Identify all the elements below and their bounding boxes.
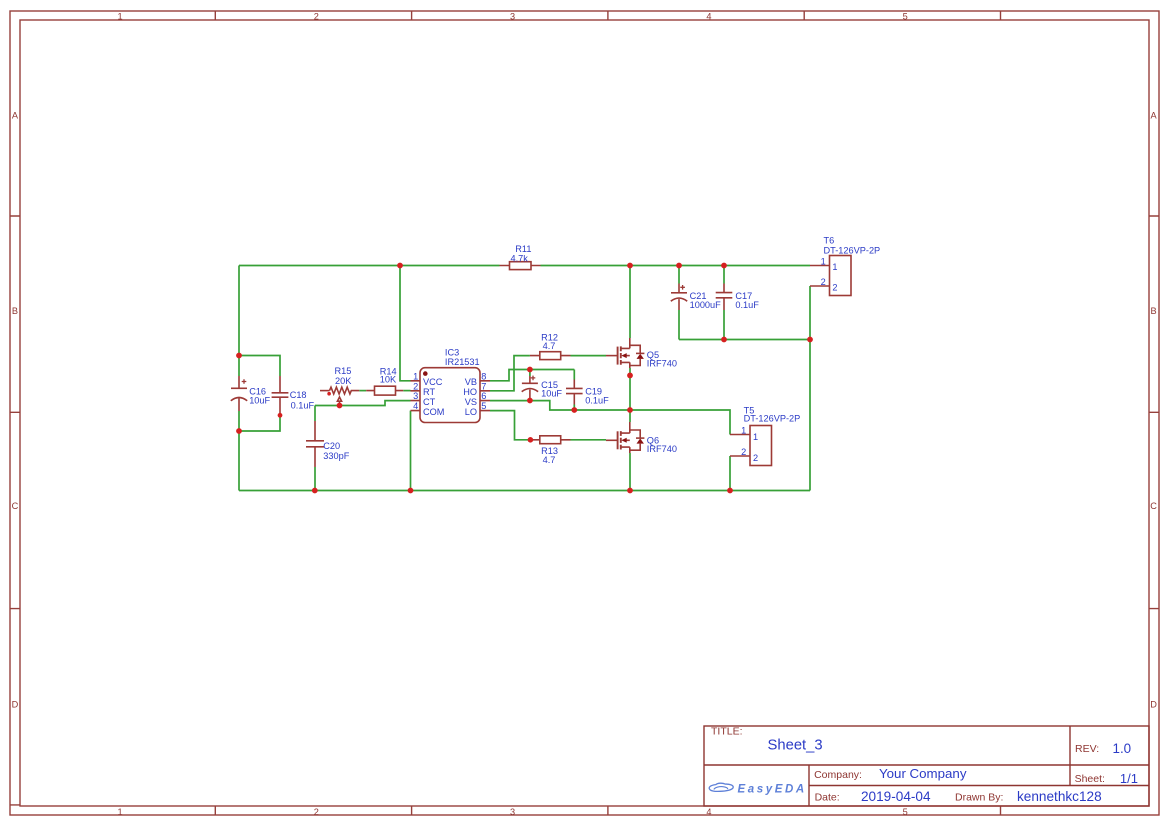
node C15 top on VB wire <box>527 367 533 373</box>
svg-text:IR21531: IR21531 <box>445 357 480 367</box>
svg-text:1.0: 1.0 <box>1113 741 1132 756</box>
svg-text:10uF: 10uF <box>249 395 270 405</box>
node C18 bottom pin end <box>278 413 283 418</box>
svg-text:Sheet_3: Sheet_3 <box>768 737 823 753</box>
label T5 DT-126VP-2P <box>744 406 801 424</box>
svg-text:0.1uF: 0.1uF <box>585 395 609 405</box>
wire C17 bottom <box>723 310 725 340</box>
wire left rail below C16 <box>238 411 240 491</box>
svg-text:Date:: Date: <box>815 791 840 803</box>
svg-text:B: B <box>12 306 18 316</box>
wire R12 to Q5 gate <box>571 355 607 357</box>
resistor R13 <box>530 436 570 444</box>
svg-text:7: 7 <box>481 381 486 391</box>
label C18 0.1uF <box>290 390 315 410</box>
label Q5 IRF740 <box>647 350 677 368</box>
svg-text:1: 1 <box>741 425 746 435</box>
svg-text:2: 2 <box>741 447 746 457</box>
svg-text:2: 2 <box>821 277 826 287</box>
wire RT node R15 wiper to CT pin <box>315 401 411 406</box>
node T5 pin2 bottom rail <box>727 488 733 494</box>
label IC3 IR21531 <box>445 348 480 367</box>
label T6 pin numbers <box>821 256 838 292</box>
title block grid lines <box>704 726 1149 806</box>
wire C20 top <box>314 406 316 422</box>
TITLEBLOCK <box>704 726 1149 806</box>
label IC3 pin numbers <box>413 371 486 411</box>
svg-text:D: D <box>12 699 19 709</box>
svg-text:1/1: 1/1 <box>1120 771 1138 786</box>
svg-text:COM: COM <box>423 407 444 417</box>
svg-text:5: 5 <box>903 807 908 817</box>
node Q5 drain on top rail <box>627 263 633 269</box>
wire mid rail C21/C17 bottoms <box>679 339 810 341</box>
wire Q5 drain to top rail <box>629 266 631 339</box>
label T5 pin numbers <box>741 425 758 463</box>
svg-text:REV:: REV: <box>1075 743 1099 755</box>
svg-text:1: 1 <box>753 432 758 442</box>
capacitor C19 <box>566 380 583 405</box>
svg-text:VS: VS <box>465 397 477 407</box>
svg-text:Drawn By:: Drawn By: <box>955 791 1003 803</box>
resistor R12 <box>530 352 571 360</box>
svg-text:10K: 10K <box>380 375 397 385</box>
svg-text:330pF: 330pF <box>323 451 349 461</box>
svg-text:TITLE:: TITLE: <box>711 726 743 738</box>
capacitor C21 polarized <box>671 284 687 311</box>
svg-text:Sheet:: Sheet: <box>1075 773 1105 785</box>
label R13 4.7 <box>541 446 558 465</box>
node left rail C18 branch bottom <box>236 428 242 434</box>
node Q5 source pin end <box>627 373 633 379</box>
capacitor C18 <box>272 376 289 415</box>
wire C19 top lead upper <box>573 370 575 380</box>
node COM pin4 bottom rail <box>408 488 414 494</box>
svg-text:LO: LO <box>465 407 477 417</box>
wire VB pin8 to C15/C19 tops <box>490 370 574 381</box>
svg-text:2: 2 <box>832 282 837 292</box>
label C17 0.1uF <box>735 291 759 310</box>
svg-text:C: C <box>1150 501 1157 511</box>
op-amp IC3 IR21531 body <box>411 368 491 423</box>
label R15 20K <box>335 366 353 386</box>
capacitor C15 polarized <box>522 376 538 401</box>
wire bottom rail COM net <box>239 490 810 492</box>
wire VS pin6 to node <box>490 401 730 435</box>
svg-text:2019-04-04: 2019-04-04 <box>861 789 931 804</box>
EasyEDA logo icon <box>709 783 733 791</box>
node C21 top <box>676 263 682 269</box>
label C16 10uF <box>249 386 270 405</box>
resistor R14 <box>366 386 403 395</box>
wire C17 top <box>723 266 725 284</box>
label R11 4.7k <box>511 244 532 264</box>
label R14 10K <box>380 366 397 384</box>
svg-text:C20: C20 <box>323 441 340 451</box>
svg-text:6: 6 <box>481 391 486 401</box>
label IC3 pin names <box>423 377 477 417</box>
svg-text:kennethkc128: kennethkc128 <box>1017 789 1102 804</box>
capacitor C17 <box>716 284 733 311</box>
svg-text:T6: T6 <box>824 236 835 246</box>
node Q6 source bottom rail <box>627 488 633 494</box>
wire R13 to Q6 gate <box>571 439 607 441</box>
wire top rail right of R11 <box>541 265 811 267</box>
wire Q6 source to bottom rail <box>629 453 631 491</box>
svg-text:0.1uF: 0.1uF <box>735 300 759 310</box>
wire T5 pin2 drop <box>729 456 731 491</box>
wire C18 branch top <box>239 356 280 377</box>
svg-text:3: 3 <box>510 12 515 22</box>
label Q6 IRF740 <box>647 435 677 454</box>
wire C19 bottom stub <box>573 405 575 411</box>
node R15 pin1 end marker <box>327 392 331 396</box>
node R15 wiper junction <box>337 403 343 409</box>
node C17 top <box>721 263 727 269</box>
capacitor C20 <box>306 421 324 467</box>
svg-text:20K: 20K <box>335 376 352 386</box>
svg-text:4.7: 4.7 <box>543 341 556 351</box>
potentiometer R15 <box>320 387 359 405</box>
svg-text:8: 8 <box>481 371 486 381</box>
svg-text:A: A <box>1151 111 1158 121</box>
svg-text:EasyEDA: EasyEDA <box>738 783 807 795</box>
wire Q6 drain from VS node <box>629 410 631 422</box>
svg-text:5: 5 <box>481 401 486 411</box>
connector T5 DT-126VP-2P <box>730 426 772 466</box>
label C21 1000uF <box>690 291 722 310</box>
svg-text:3: 3 <box>510 807 515 817</box>
svg-text:VCC: VCC <box>423 377 443 387</box>
svg-text:1: 1 <box>117 807 122 817</box>
svg-text:HO: HO <box>463 387 477 397</box>
wire C15 top lead upper <box>529 370 531 377</box>
svg-text:1000uF: 1000uF <box>690 300 722 310</box>
wire HO pin7 to R12 <box>490 356 530 391</box>
svg-text:1: 1 <box>821 256 826 266</box>
svg-text:B: B <box>1151 306 1157 316</box>
wire Q5 source to VS node <box>629 368 631 410</box>
svg-text:4: 4 <box>706 807 711 817</box>
svg-text:1: 1 <box>413 371 418 381</box>
svg-text:2: 2 <box>314 12 319 22</box>
label C19 0.1uF <box>585 386 609 405</box>
LABELS <box>249 236 880 465</box>
node left rail C18 branch top <box>236 353 242 359</box>
svg-text:C: C <box>12 501 19 511</box>
node VCC/R11 junction <box>397 263 403 269</box>
capacitor C16 polarized <box>231 376 247 411</box>
wire C20 bottom <box>314 467 316 491</box>
wire R14 to pin2 <box>403 390 410 392</box>
node C19 bottom on VS wire <box>571 407 577 413</box>
wire T6 pin2 drop <box>809 286 811 340</box>
svg-text:2: 2 <box>413 381 418 391</box>
svg-text:2: 2 <box>314 807 319 817</box>
wire LO pin5 to R13 <box>490 411 530 440</box>
WIRES <box>239 266 810 491</box>
node C15 bottom on VS wire <box>527 398 533 404</box>
node VS half-bridge junction <box>627 407 633 413</box>
node mid rail right corner <box>807 337 813 343</box>
svg-text:4: 4 <box>413 401 418 411</box>
wire top rail VCC net <box>239 265 500 267</box>
wire COM pin4 down to bottom rail <box>410 411 412 491</box>
transistor Q6 IRF740 <box>606 422 644 453</box>
svg-text:IRF740: IRF740 <box>647 358 677 368</box>
wire C21 bottom <box>678 310 680 340</box>
svg-text:IRF740: IRF740 <box>647 444 677 454</box>
svg-text:CT: CT <box>423 397 436 407</box>
wire R15 to R14 <box>359 390 366 392</box>
svg-text:2: 2 <box>753 453 758 463</box>
label R12 4.7 <box>541 333 558 352</box>
wire C21 top <box>678 266 680 284</box>
wire C18 branch bottom <box>239 415 280 431</box>
svg-text:5: 5 <box>903 12 908 22</box>
label T6 DT-126VP-2P <box>824 236 881 256</box>
svg-text:RT: RT <box>423 387 435 397</box>
transistor Q5 IRF740 <box>606 338 644 368</box>
svg-text:C18: C18 <box>290 390 307 400</box>
resistor R11 <box>500 262 541 270</box>
svg-text:1: 1 <box>832 262 837 272</box>
svg-text:R15: R15 <box>335 366 352 376</box>
wire right rail T6 pin2 to bottom <box>809 340 811 491</box>
svg-text:D: D <box>1150 699 1157 709</box>
COMPONENTS <box>231 256 851 468</box>
svg-text:VB: VB <box>465 377 477 387</box>
label C15 10uF <box>541 380 562 398</box>
JUNCTION DOTS <box>236 263 813 494</box>
node C17 bottom mid rail <box>721 337 727 343</box>
node C20 bottom rail <box>312 488 318 494</box>
svg-text:Company:: Company: <box>814 769 862 781</box>
label C20 330pF <box>323 441 349 461</box>
svg-text:DT-126VP-2P: DT-126VP-2P <box>744 414 801 424</box>
wire VCC drop to pin1 <box>400 266 411 381</box>
connector T6 DT-126VP-2P <box>810 256 851 296</box>
svg-text:4: 4 <box>706 12 711 22</box>
svg-text:4.7: 4.7 <box>543 455 556 465</box>
svg-text:Your Company: Your Company <box>879 766 967 781</box>
svg-text:3: 3 <box>413 391 418 401</box>
svg-text:R11: R11 <box>515 244 531 254</box>
svg-text:10uF: 10uF <box>541 389 562 399</box>
node R13 left pin end <box>528 437 534 443</box>
svg-text:1: 1 <box>117 12 122 22</box>
svg-text:DT-126VP-2P: DT-126VP-2P <box>824 246 881 256</box>
svg-text:A: A <box>12 111 19 121</box>
svg-text:4.7k: 4.7k <box>511 254 529 264</box>
wire left rail <box>238 266 240 377</box>
svg-text:0.1uF: 0.1uF <box>291 400 315 410</box>
